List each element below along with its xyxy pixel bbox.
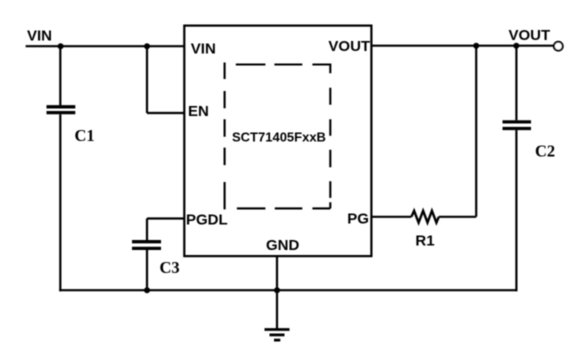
wire GND pin lead	[276, 256, 278, 329]
wire R1 to feedback vertical	[439, 216, 476, 218]
wire EN branch horizontal	[147, 112, 185, 114]
wire ground rail	[59, 289, 517, 291]
svg-text:VIN: VIN	[27, 28, 52, 45]
wire PGDL horizontal	[147, 217, 185, 219]
wire EN branch vertical	[146, 46, 148, 113]
svg-text:EN: EN	[188, 103, 209, 120]
svg-text:SCT71405FxxB: SCT71405FxxB	[232, 130, 326, 145]
svg-text:GND: GND	[266, 237, 300, 254]
wire feedback vertical	[475, 46, 477, 217]
ground	[265, 330, 290, 341]
op-amp U1 SCT71405FxxB body	[184, 26, 371, 257]
wire C3 upper lead	[146, 219, 148, 241]
svg-text:PG: PG	[347, 211, 369, 228]
wire C1 upper lead	[59, 46, 61, 105]
wire PG to R1	[371, 216, 411, 218]
wire VOUT output rail	[371, 45, 553, 47]
junction C2 tap	[513, 43, 519, 49]
svg-text:C3: C3	[160, 258, 180, 277]
svg-text:C1: C1	[75, 126, 95, 145]
svg-text:C2: C2	[535, 142, 555, 161]
wire C3 lower lead	[146, 250, 148, 290]
wire C1 lower lead	[59, 114, 61, 291]
junction EN tap	[144, 43, 150, 49]
junction C3 to ground rail	[144, 287, 150, 293]
svg-text:R1: R1	[415, 233, 434, 250]
wire C2 lower lead	[515, 130, 517, 291]
internal dashed block	[225, 63, 331, 210]
junction R1 feedback tap	[473, 43, 479, 49]
svg-text:PGDL: PGDL	[186, 212, 228, 229]
capacitor C2	[503, 122, 532, 129]
svg-text:VOUT: VOUT	[509, 27, 551, 44]
resistor R1	[411, 211, 438, 223]
svg-text:VIN: VIN	[191, 41, 216, 58]
wire C2 upper lead	[515, 46, 517, 121]
terminal VOUT open circle	[554, 42, 563, 51]
capacitor C3	[132, 242, 161, 249]
svg-text:VOUT: VOUT	[328, 38, 370, 55]
junction GND to ground rail	[274, 287, 280, 293]
wire VIN input rail	[26, 45, 185, 47]
capacitor C1	[47, 107, 76, 113]
junction C1 tap	[58, 43, 64, 49]
